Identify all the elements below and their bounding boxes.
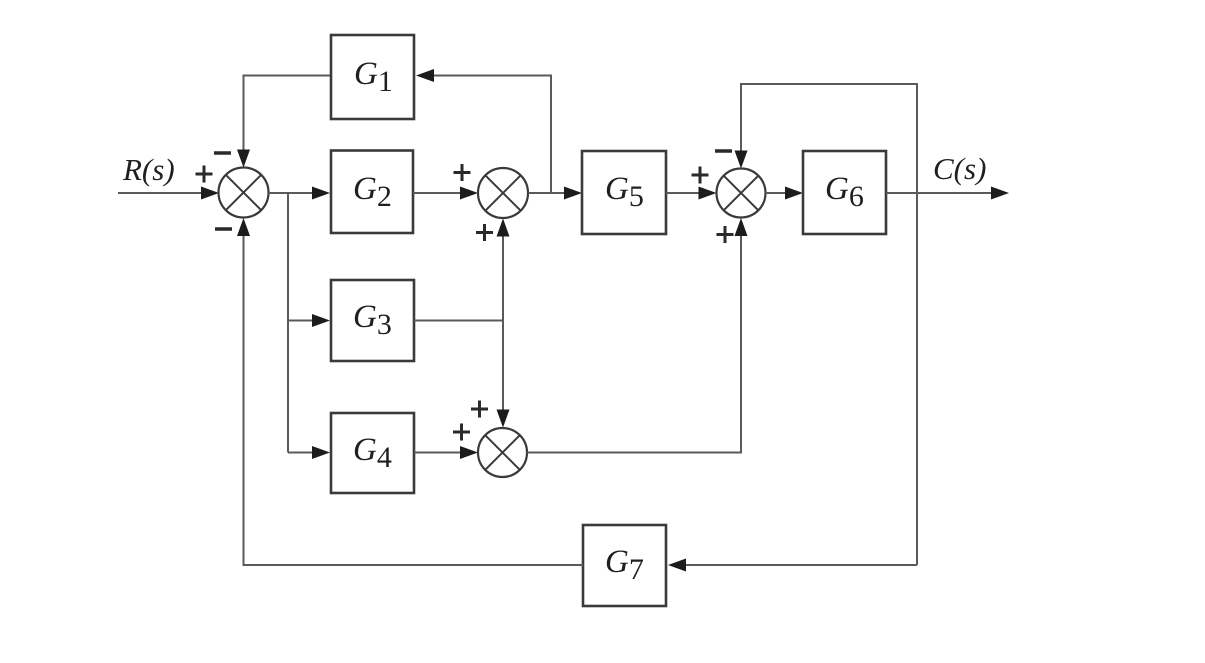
wire S4 output right and up into S3 bottom <box>527 218 748 453</box>
summing junction S3 <box>717 169 766 218</box>
wire S2 output into G5 <box>529 187 583 200</box>
svg-text:R(s): R(s) <box>122 152 175 187</box>
wire G4 output into S4 <box>414 446 478 459</box>
sign minus at S1 bottom input <box>215 227 232 231</box>
wire branch into block G4 <box>288 446 330 459</box>
block G6 <box>803 151 886 234</box>
summing junction S4 <box>478 428 527 477</box>
sign plus at S4 left input <box>453 424 470 441</box>
wire bottom feedback left segment up into S1 bottom <box>237 218 583 565</box>
wire G3 output junction line up into S2 bottom and down into S4 top <box>497 219 510 428</box>
wire R(s) input into summing junction S1 <box>118 187 219 200</box>
wire takeoff after S2 up and into G1 input <box>416 69 551 193</box>
sign plus at S1 left input <box>196 166 213 183</box>
sign plus at S2 left input <box>454 164 471 181</box>
svg-text:C(s): C(s) <box>933 151 986 186</box>
block G4 <box>331 413 414 493</box>
summing junction S2 <box>478 168 528 218</box>
block G7 <box>583 525 666 606</box>
wire S1 output to block G2 with branch node <box>269 187 331 200</box>
wire G1 output down into S1 top <box>237 76 331 168</box>
sign minus at S1 top input <box>214 151 231 155</box>
summing junction S1 <box>219 168 269 218</box>
sign minus at S3 top input <box>715 149 732 153</box>
wire branch into block G3 <box>288 314 330 327</box>
wire feedback from output node down into S3 top <box>735 84 918 193</box>
wire S3 output into G6 <box>766 187 804 200</box>
block G3 <box>331 280 414 361</box>
wire bottom feedback right segment into G7 <box>668 559 917 572</box>
wire G6 output to C(s) arrow <box>886 187 1009 200</box>
wire output node vertical down to bottom feedback <box>916 84 918 565</box>
block G2 <box>331 151 413 234</box>
wire G2 output into S2 <box>413 187 478 200</box>
wire G3 output horizontal <box>414 320 503 322</box>
sign plus at S4 top input <box>471 401 488 418</box>
block G5 <box>582 151 666 234</box>
wire G5 output into S3 <box>666 187 717 200</box>
block G1 <box>331 35 414 119</box>
sign plus at S2 bottom input <box>476 224 493 241</box>
wire branch vertical from S1 output down to G4 row <box>287 193 289 453</box>
sign plus at S3 bottom input <box>717 226 734 243</box>
sign plus at S3 left input <box>692 167 709 184</box>
